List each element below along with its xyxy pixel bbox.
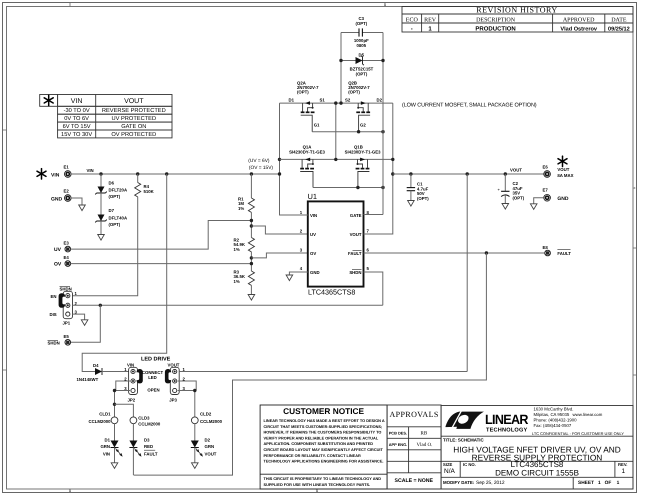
svg-text:DIS: DIS bbox=[50, 312, 57, 317]
svg-text:APPROVED: APPROVED bbox=[563, 17, 595, 23]
turret E6 bbox=[543, 164, 551, 177]
diode CLD3 bbox=[130, 417, 137, 424]
wire CLD2 to D2 bbox=[194, 424, 196, 441]
svg-text:E7: E7 bbox=[543, 188, 549, 193]
svg-text:FAULT: FAULT bbox=[557, 251, 571, 256]
svg-text:1%: 1% bbox=[234, 247, 240, 252]
jumper JP1 bbox=[63, 291, 72, 318]
svg-text:G2: G2 bbox=[360, 122, 366, 127]
label CLD1 bbox=[89, 411, 112, 424]
led D3 bbox=[129, 441, 141, 457]
junction R3 top OV sense bbox=[250, 262, 253, 265]
svg-text:www.linear.com: www.linear.com bbox=[573, 412, 603, 417]
wire VIN branch to LED drive bbox=[82, 174, 167, 372]
led D1 bbox=[111, 441, 123, 457]
svg-text:TECHNOLOGY: TECHNOLOGY bbox=[486, 427, 528, 433]
svg-text:EN: EN bbox=[51, 294, 57, 299]
ground below D7 bbox=[98, 235, 105, 241]
svg-text:1%: 1% bbox=[234, 279, 240, 284]
svg-text:VERIFY PROPER AND RELIABLE OPE: VERIFY PROPER AND RELIABLE OPERATION IN … bbox=[264, 436, 379, 440]
svg-text:SCALE = NONE: SCALE = NONE bbox=[395, 478, 434, 484]
diode D6 zener bbox=[95, 187, 107, 195]
svg-text:APPROVALS: APPROVALS bbox=[389, 410, 438, 419]
label Q1A bbox=[289, 145, 325, 155]
svg-text:LTC CONFIDENTIAL - FOR CUSTOME: LTC CONFIDENTIAL - FOR CUSTOMER USE ONLY bbox=[532, 431, 624, 436]
svg-text:PERFORMANCE OR RELIABILITY. C: PERFORMANCE OR RELIABILITY. CONTACT LINE… bbox=[264, 454, 362, 458]
ground at C2 bbox=[502, 204, 509, 210]
wire E7 to ground bbox=[534, 198, 544, 204]
wire VIN rail bbox=[71, 173, 279, 175]
junction OV pin jog bbox=[250, 256, 253, 259]
pin 3 OV bbox=[300, 247, 317, 256]
node VIN input asterisk bbox=[37, 169, 46, 179]
wire VOUT riser to JP3 bbox=[466, 174, 468, 372]
svg-text:SIZE: SIZE bbox=[443, 462, 453, 467]
svg-text:15V TO 30V: 15V TO 30V bbox=[61, 132, 92, 138]
svg-text:SHDN: SHDN bbox=[48, 341, 60, 346]
svg-text:IC NO.: IC NO. bbox=[463, 462, 476, 467]
transistor Q1B bbox=[356, 158, 370, 188]
wire JP1 pin2 SHDN net bbox=[73, 304, 383, 306]
ground at C1 bbox=[408, 201, 415, 207]
label VOUT 8A MAX bbox=[557, 167, 573, 178]
svg-text:N/A: N/A bbox=[444, 468, 456, 475]
pin 8 GATE bbox=[350, 210, 370, 218]
wire jog to OV pin3 bbox=[251, 253, 307, 258]
diode CLD1 bbox=[111, 417, 118, 424]
junction FAULT riser bbox=[485, 251, 488, 254]
pin 2 UV bbox=[300, 228, 316, 237]
svg-text:1: 1 bbox=[69, 489, 71, 493]
junction right riser VOUT rail bbox=[391, 172, 394, 175]
label SHDN above JP1 bbox=[60, 286, 72, 291]
wire JP3 pin3 branch bbox=[178, 391, 195, 418]
svg-text:JP2: JP2 bbox=[128, 398, 136, 403]
svg-text:U1: U1 bbox=[308, 192, 318, 201]
wire S1S2 riser bbox=[335, 103, 337, 159]
junction JP2 pins23 bbox=[113, 389, 116, 392]
jumper JP2 bbox=[129, 367, 138, 394]
svg-text:1%: 1% bbox=[238, 206, 244, 211]
svg-text:GND: GND bbox=[310, 270, 320, 275]
svg-text:(OPT): (OPT) bbox=[513, 195, 525, 200]
svg-text:-: - bbox=[411, 26, 413, 32]
ground at JP1 pin3 bbox=[81, 320, 88, 326]
svg-text:CUSTOMER NOTICE: CUSTOMER NOTICE bbox=[283, 406, 364, 416]
title block frame bbox=[441, 406, 633, 490]
svg-text:6V TO 15V: 6V TO 15V bbox=[63, 124, 91, 130]
wire VIN to D6 bbox=[100, 174, 102, 187]
junction riser VIN rail bbox=[278, 172, 281, 175]
svg-text:Sep 25, 2012: Sep 25, 2012 bbox=[476, 480, 505, 486]
junction CLD3 branch bbox=[113, 403, 116, 406]
svg-text:(OPT): (OPT) bbox=[109, 222, 121, 227]
svg-text:E8: E8 bbox=[543, 245, 549, 250]
svg-text:(OPT): (OPT) bbox=[417, 196, 429, 201]
wire FAULT routing to LED bbox=[134, 253, 487, 475]
junction riser Q1 rail bbox=[278, 158, 281, 161]
junction C2 tap bbox=[504, 172, 507, 175]
junction UV pin jog bbox=[250, 224, 253, 227]
led D2 bbox=[191, 441, 203, 457]
label SHDN at E5 bbox=[48, 341, 60, 346]
svg-text:E5: E5 bbox=[64, 334, 70, 339]
svg-text:REV.: REV. bbox=[618, 462, 627, 467]
svg-text:1N4148WT: 1N4148WT bbox=[77, 377, 99, 382]
svg-text:1630 McCarthy Blvd.: 1630 McCarthy Blvd. bbox=[534, 407, 574, 412]
wire D7 to ground bbox=[100, 221, 102, 235]
junction D5 right bbox=[381, 59, 384, 62]
svg-text:S1: S1 bbox=[320, 98, 326, 103]
label D1 bbox=[100, 437, 110, 456]
svg-text:OV: OV bbox=[54, 262, 62, 268]
svg-text:FAULT: FAULT bbox=[144, 451, 158, 456]
diode D4 bbox=[95, 368, 129, 375]
junction VIN-R1 bbox=[250, 172, 253, 175]
svg-text:VIN: VIN bbox=[71, 98, 83, 105]
svg-text:ECO: ECO bbox=[406, 17, 419, 23]
wire D1 to ground bbox=[114, 448, 116, 463]
junction C1 tap bbox=[409, 172, 412, 175]
label MODIFY DATE bbox=[443, 480, 505, 486]
svg-text:Vlad O.: Vlad O. bbox=[417, 442, 433, 448]
junction right riser Q1 rail bbox=[391, 158, 394, 161]
svg-text:DFLT40A: DFLT40A bbox=[109, 215, 128, 220]
ground at D1 bbox=[111, 463, 118, 469]
wire JP2 pin2 branch bbox=[116, 381, 130, 391]
svg-text:E1: E1 bbox=[64, 165, 70, 170]
svg-text:1: 1 bbox=[316, 489, 318, 493]
svg-text:OPEN: OPEN bbox=[147, 388, 159, 393]
svg-text:OV PROTECTED: OV PROTECTED bbox=[111, 132, 156, 138]
junction gate riser top bbox=[381, 130, 384, 133]
label D2 bbox=[205, 437, 217, 456]
svg-text:UV: UV bbox=[310, 232, 316, 237]
svg-text:REVERSE PROTECTED: REVERSE PROTECTED bbox=[102, 108, 166, 114]
svg-text:APP ENG.: APP ENG. bbox=[389, 442, 408, 447]
svg-text:0V TO 6V: 0V TO 6V bbox=[64, 116, 89, 122]
transistor Q2A bbox=[301, 101, 315, 131]
svg-text:CCLM2000: CCLM2000 bbox=[138, 421, 161, 426]
svg-text:PRODUCTION: PRODUCTION bbox=[475, 25, 515, 32]
svg-text:VIN: VIN bbox=[51, 172, 60, 178]
junction VIN-D6 bbox=[99, 172, 102, 175]
label D3 bbox=[144, 437, 158, 456]
svg-text:GATE ON: GATE ON bbox=[121, 124, 146, 130]
wire FAULT net bbox=[364, 252, 545, 254]
label D4 bbox=[77, 363, 100, 382]
svg-text:GRN: GRN bbox=[205, 444, 215, 449]
label APP ENG bbox=[389, 442, 433, 448]
vin vout conditions table bbox=[40, 95, 172, 138]
svg-text:E6: E6 bbox=[543, 164, 549, 169]
wire gate riser bbox=[364, 33, 384, 215]
wire Q2 gate line bbox=[312, 131, 383, 133]
customer notice box bbox=[260, 405, 387, 489]
customer notice footer text bbox=[264, 477, 382, 487]
node VOUT output asterisk bbox=[558, 156, 567, 166]
svg-text:GATE: GATE bbox=[350, 213, 362, 218]
wire JP3 pin1 to VOUT riser bbox=[179, 371, 467, 373]
svg-text:PCB DES.: PCB DES. bbox=[389, 430, 407, 435]
label R1 bbox=[238, 197, 244, 212]
svg-text:LINEAR: LINEAR bbox=[485, 412, 529, 427]
svg-text:E4: E4 bbox=[64, 255, 70, 260]
wire D3 to fault line bbox=[132, 448, 134, 476]
svg-text:TITLE: SCHEMATIC: TITLE: SCHEMATIC bbox=[443, 438, 484, 443]
turret E7 bbox=[543, 188, 551, 202]
pin 4 GND bbox=[300, 266, 320, 275]
svg-text:CIRCUIT BOARD LAYOUT MAY SIGNI: CIRCUIT BOARD LAYOUT MAY SIGNIFICANTLY A… bbox=[264, 448, 384, 452]
svg-text:(LOW CURRENT MOSFET, SMALL PAC: (LOW CURRENT MOSFET, SMALL PACKAGE OPTIO… bbox=[402, 103, 537, 109]
wire CLD1 to D1 bbox=[114, 424, 116, 441]
svg-text:1: 1 bbox=[384, 3, 386, 7]
wire R4 to JP1 pin1 bbox=[73, 197, 138, 296]
svg-text:DEMO CIRCUIT 1555B: DEMO CIRCUIT 1555B bbox=[495, 469, 579, 478]
label C1 bbox=[417, 182, 429, 201]
wire CLD3 to D3 bbox=[132, 424, 134, 441]
svg-text:CLD3: CLD3 bbox=[138, 415, 150, 420]
svg-text:CLD2: CLD2 bbox=[200, 411, 212, 416]
shunt on JP1 pins 1-2 bbox=[59, 293, 66, 308]
svg-text:S2: S2 bbox=[345, 98, 351, 103]
svg-text:CCLM2000: CCLM2000 bbox=[89, 419, 112, 424]
svg-text:0805: 0805 bbox=[357, 43, 367, 48]
svg-text:c: c bbox=[634, 186, 636, 190]
junction S1S2 top bbox=[334, 101, 337, 104]
junction Q1B gate bbox=[356, 186, 359, 189]
title text bbox=[453, 444, 621, 462]
svg-text:VIN: VIN bbox=[127, 362, 134, 367]
junction gate riser mid bbox=[381, 186, 384, 189]
svg-text:OV: OV bbox=[310, 251, 316, 256]
address block bbox=[534, 407, 603, 429]
JP2 pin numbers bbox=[124, 367, 127, 391]
svg-text:JP1: JP1 bbox=[63, 320, 71, 325]
diode CLD2 bbox=[191, 417, 198, 424]
svg-text:(OPT): (OPT) bbox=[356, 71, 368, 76]
turret E3 bbox=[64, 240, 71, 252]
ground at D2 bbox=[192, 463, 199, 469]
svg-text:RED: RED bbox=[144, 444, 153, 449]
svg-text:D7: D7 bbox=[109, 208, 115, 213]
label Q2B bbox=[348, 80, 370, 94]
wire pin5 SHDN routing bbox=[364, 272, 383, 305]
wire CLD3 branch bbox=[115, 404, 134, 417]
svg-text:VOUT: VOUT bbox=[510, 168, 522, 173]
shunt on JP3 pins 1-2 bbox=[165, 369, 172, 383]
label CONNECT LED bbox=[142, 370, 164, 380]
svg-text:510K: 510K bbox=[144, 189, 155, 194]
label FAULT at E8 bbox=[557, 249, 571, 256]
wire E3 to R1R2 junction bbox=[71, 221, 252, 250]
wire R3 to ground bbox=[250, 285, 252, 294]
svg-text:HOWEVER, IT REMAINS THE CUSTOM: HOWEVER, IT REMAINS THE CUSTOMERS RESPON… bbox=[264, 431, 382, 435]
svg-text:UV: UV bbox=[54, 247, 62, 253]
label CLD3 bbox=[138, 415, 161, 426]
svg-text:DFLT20A: DFLT20A bbox=[109, 188, 128, 193]
svg-text:RB: RB bbox=[421, 431, 428, 437]
revision history table bbox=[402, 7, 633, 33]
wire JP1 pin3 to ground bbox=[73, 314, 85, 320]
wire VIN to R4 bbox=[137, 174, 139, 183]
junction VIN-R4 bbox=[136, 172, 139, 175]
resistor R2 bbox=[248, 238, 254, 252]
customer notice divider bbox=[260, 473, 387, 475]
customer notice body text bbox=[264, 419, 385, 464]
svg-text:SHEET 1 OF 1: SHEET 1 OF 1 bbox=[578, 480, 620, 486]
label R3 bbox=[234, 269, 246, 284]
label Q1B bbox=[345, 145, 381, 155]
svg-text:1: 1 bbox=[622, 468, 626, 475]
svg-text:(OPT): (OPT) bbox=[348, 90, 360, 95]
wire VIN to R1 bbox=[250, 174, 252, 198]
wire E2 to ground bbox=[71, 198, 82, 205]
label C2 bbox=[513, 181, 525, 200]
wire JP2 pin3 branch bbox=[115, 391, 131, 418]
svg-text:VIN: VIN bbox=[103, 451, 110, 456]
svg-text:-30 TO 0V: -30 TO 0V bbox=[64, 108, 90, 114]
label Q2A bbox=[297, 80, 319, 94]
turret E1 bbox=[64, 165, 72, 178]
wire C3 D5 left leg bbox=[340, 33, 342, 104]
svg-text:D1: D1 bbox=[289, 98, 295, 103]
svg-text:G1: G1 bbox=[314, 122, 320, 127]
svg-text:D2: D2 bbox=[377, 98, 383, 103]
label R2 bbox=[234, 238, 246, 253]
wire jog to UV pin2 bbox=[251, 226, 307, 234]
svg-text:8A MAX: 8A MAX bbox=[557, 173, 573, 178]
label REV bbox=[618, 462, 627, 475]
svg-text:LED DRIVE: LED DRIVE bbox=[141, 357, 171, 363]
ground at E7 bbox=[530, 204, 537, 210]
resistor R4 bbox=[135, 183, 141, 197]
label D7 bbox=[109, 208, 128, 227]
svg-text:JP3: JP3 bbox=[169, 398, 177, 403]
svg-text:D2: D2 bbox=[205, 437, 211, 442]
svg-text:VIN: VIN bbox=[310, 213, 317, 218]
svg-text:APPLICATION. COMPONENT SUBSTI: APPLICATION. COMPONENT SUBSTITUTION AND … bbox=[264, 442, 374, 446]
svg-text:GND: GND bbox=[51, 196, 63, 202]
ground below R3 bbox=[248, 295, 255, 301]
svg-text:Phone: (408)432-1900: Phone: (408)432-1900 bbox=[534, 418, 578, 423]
svg-text:DATE: DATE bbox=[611, 17, 627, 23]
junction JP3 riser tap bbox=[466, 172, 469, 175]
svg-text:Milpitas, CA 95035: Milpitas, CA 95035 bbox=[534, 412, 570, 417]
svg-text:D4: D4 bbox=[93, 363, 99, 368]
svg-text:SUPPLIED FOR USE WITH LINEAR T: SUPPLIED FOR USE WITH LINEAR TECHNOLOGY … bbox=[264, 483, 371, 487]
junction JP3 pins23 bbox=[193, 389, 196, 392]
wire Q1 gate line bbox=[313, 187, 383, 189]
capacitor C2 polarized bbox=[498, 174, 510, 204]
svg-text:LINEAR TECHNOLOGY HAS MADE A B: LINEAR TECHNOLOGY HAS MADE A BEST EFFORT… bbox=[264, 419, 385, 423]
svg-text:TECHNOLOGY APPLICATIONS ENGINE: TECHNOLOGY APPLICATIONS ENGINEERING FOR … bbox=[264, 460, 384, 464]
svg-text:Fax: (408)434-0507: Fax: (408)434-0507 bbox=[534, 423, 572, 428]
junction R1 bottom UV sense bbox=[250, 219, 253, 222]
svg-text:FAULT: FAULT bbox=[348, 251, 362, 256]
junction S1S2 bottom bbox=[334, 158, 337, 161]
svg-text:E2: E2 bbox=[64, 189, 70, 194]
diode D5 zener bbox=[341, 56, 383, 65]
jumper JP3 bbox=[170, 367, 179, 394]
resistor R3 bbox=[248, 271, 254, 285]
svg-text:GRN: GRN bbox=[100, 444, 110, 449]
svg-text:CIRCUIT THAT MEETS CUSTOMER-SU: CIRCUIT THAT MEETS CUSTOMER-SUPPLIED SPE… bbox=[264, 425, 383, 429]
svg-text:(OPT): (OPT) bbox=[109, 194, 121, 199]
svg-text:D6: D6 bbox=[109, 181, 115, 186]
junction SHDN-E5 bbox=[99, 304, 102, 307]
capacitor C1 bbox=[407, 174, 415, 201]
svg-text:E3: E3 bbox=[64, 240, 70, 245]
svg-text:VOUT: VOUT bbox=[124, 98, 144, 105]
svg-text:D5: D5 bbox=[359, 53, 365, 58]
shunt on JP2 pins 1-2 bbox=[136, 369, 143, 383]
label R4 bbox=[144, 184, 155, 194]
junction C3D5 to rail bbox=[339, 101, 342, 104]
svg-text:REVISION HISTORY: REVISION HISTORY bbox=[476, 6, 557, 15]
svg-text:LTC4365CTS8: LTC4365CTS8 bbox=[308, 288, 355, 297]
wire E4 to R2R3 junction bbox=[71, 263, 252, 265]
turret E2 bbox=[64, 189, 72, 202]
svg-text:LED: LED bbox=[148, 375, 157, 380]
svg-text:VOUT: VOUT bbox=[350, 232, 362, 237]
svg-text:GND: GND bbox=[557, 196, 569, 202]
wire D2 to ground bbox=[194, 448, 196, 463]
svg-text:D1: D1 bbox=[105, 437, 111, 442]
wire JP3 pin2 branch bbox=[178, 381, 197, 391]
pin 5 SHDN bbox=[349, 266, 369, 275]
wire E5 branch bbox=[71, 305, 100, 342]
transistor Q1A bbox=[300, 158, 314, 188]
label UV OV thresholds bbox=[248, 158, 273, 171]
svg-text:VOUT: VOUT bbox=[205, 451, 217, 456]
resistor R1 bbox=[248, 198, 254, 212]
label PCB DES bbox=[389, 430, 428, 436]
svg-text:SI4230DY-T1-GE3: SI4230DY-T1-GE3 bbox=[345, 149, 381, 154]
JP3 pin numbers bbox=[183, 367, 186, 391]
wire Q2 rail bbox=[280, 102, 393, 104]
label SIZE bbox=[443, 462, 456, 475]
wire pin4 GND to ground bbox=[289, 272, 307, 275]
wire Q1 rail bbox=[280, 158, 393, 160]
svg-text:D3: D3 bbox=[144, 437, 150, 442]
label C3 bbox=[354, 16, 369, 48]
pin 7 VOUT bbox=[350, 228, 370, 237]
wire right riser to pin7 bbox=[364, 103, 393, 234]
svg-text:SI4230DY-T1-GE3: SI4230DY-T1-GE3 bbox=[289, 149, 325, 154]
svg-text:UV PROTECTED: UV PROTECTED bbox=[112, 116, 157, 122]
svg-text:SHDN: SHDN bbox=[60, 286, 72, 291]
svg-text:(OPT): (OPT) bbox=[355, 21, 367, 26]
wire R1 to R2 bbox=[250, 212, 252, 237]
svg-text:CLD1: CLD1 bbox=[99, 411, 111, 416]
svg-text:(OV = 15V): (OV = 15V) bbox=[249, 165, 274, 171]
svg-text:VIN: VIN bbox=[87, 168, 94, 173]
svg-text:VOUT: VOUT bbox=[168, 362, 180, 367]
svg-text:Vlad Ostrerov: Vlad Ostrerov bbox=[560, 25, 598, 32]
ic U1 box bbox=[308, 201, 364, 286]
label D5 bbox=[350, 53, 374, 77]
junction VIN-JP2riser bbox=[165, 172, 168, 175]
turret E8 bbox=[543, 245, 551, 256]
svg-text:SHDN: SHDN bbox=[349, 270, 361, 275]
svg-text:(OPT): (OPT) bbox=[297, 90, 309, 95]
svg-text:THIS CIRCUIT IS PROPRIETARY TO: THIS CIRCUIT IS PROPRIETARY TO LINEAR TE… bbox=[264, 477, 382, 481]
wire left riser VIN to pin1 bbox=[280, 103, 308, 215]
svg-text:REV: REV bbox=[424, 17, 437, 23]
wire R2 to R3 bbox=[250, 252, 252, 271]
JP1 pin numbers bbox=[75, 291, 78, 314]
